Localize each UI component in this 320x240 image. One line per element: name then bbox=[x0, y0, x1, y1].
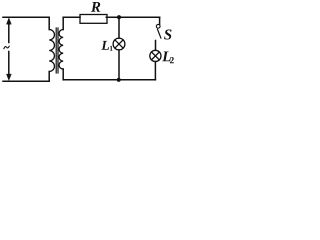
lamp L2 bbox=[150, 50, 161, 61]
node junction dot top bbox=[117, 15, 121, 19]
wire L2 lower bbox=[154, 62, 156, 80]
wire switch lower contact bbox=[155, 41, 157, 51]
wire L1 branch upper bbox=[118, 17, 120, 38]
transformer core bbox=[56, 28, 58, 73]
wire top-right corner down to switch bbox=[159, 17, 161, 24]
wire primary bottom bbox=[3, 80, 49, 82]
wire secondary top stub bbox=[62, 17, 64, 29]
label R bbox=[91, 2, 100, 12]
wire L1 branch lower bbox=[118, 50, 120, 80]
wire resistor to top-right corner bbox=[106, 16, 159, 18]
label L1 bbox=[101, 41, 109, 50]
switch S blade bbox=[158, 29, 161, 38]
wire primary coil bottom stub bbox=[48, 72, 50, 82]
transformer secondary coil T2 bbox=[59, 30, 63, 70]
wire secondary top to resistor bbox=[63, 16, 80, 18]
lamp L1 bbox=[113, 38, 125, 50]
wire secondary bottom bbox=[63, 79, 155, 81]
switch S contact circle bbox=[156, 24, 160, 28]
node junction dot bottom bbox=[117, 78, 121, 82]
tilde ~ of AC source bbox=[4, 46, 9, 48]
label S bbox=[164, 29, 171, 39]
label L2 bbox=[162, 51, 171, 61]
wire primary coil top stub bbox=[48, 17, 50, 29]
wire secondary bottom stub bbox=[62, 69, 64, 80]
wire primary top bbox=[3, 16, 49, 18]
AC source arrow (double-headed with tilde) bbox=[7, 18, 12, 80]
transformer primary coil T1 bbox=[49, 30, 54, 72]
resistor R bbox=[80, 15, 107, 24]
